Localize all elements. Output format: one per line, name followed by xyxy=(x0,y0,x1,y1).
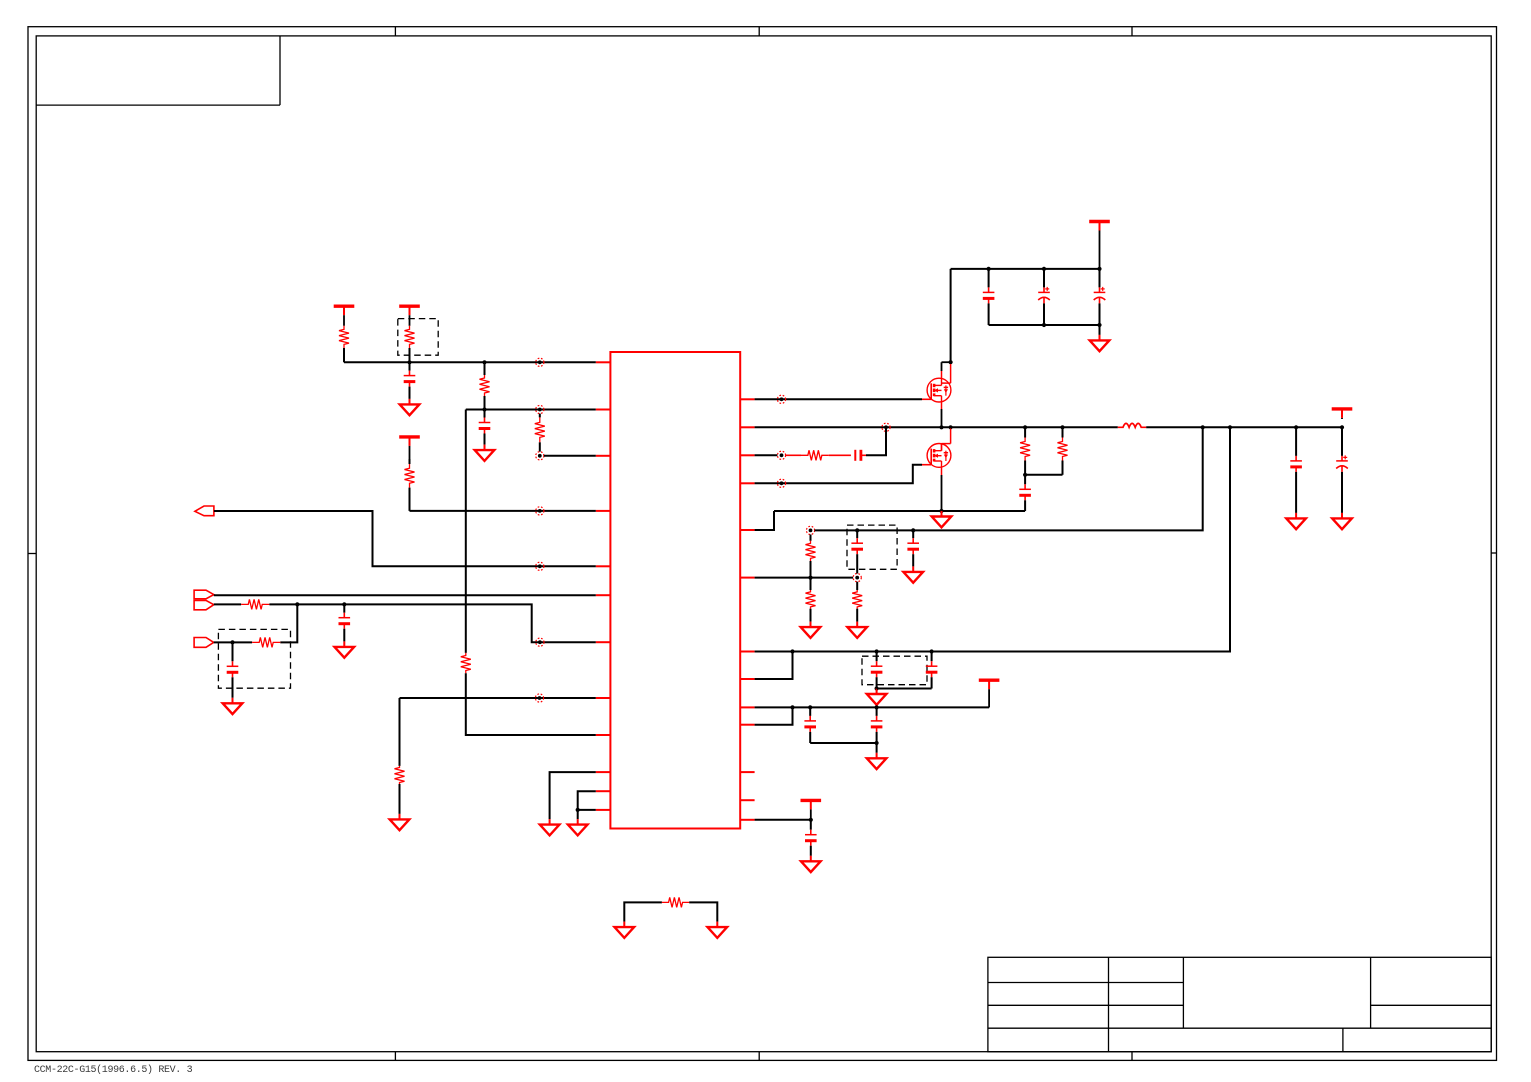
junction xyxy=(342,602,346,606)
power symbol VCC7 xyxy=(1332,409,1353,419)
junction xyxy=(809,818,813,822)
junction xyxy=(482,407,486,411)
wire to pin4 xyxy=(410,510,596,512)
junction xyxy=(1060,425,1064,429)
resistor R6 xyxy=(405,459,415,511)
junction xyxy=(875,705,879,709)
document number text xyxy=(34,1064,193,1076)
Q2 drain hook xyxy=(942,428,951,450)
node tie pin4 xyxy=(536,507,544,515)
resistor R5 xyxy=(461,653,471,673)
capacitor C7 (polarized) xyxy=(1094,269,1106,325)
node tie pin8 xyxy=(535,694,543,702)
wire pin8 net xyxy=(400,697,596,699)
ground xyxy=(400,399,420,415)
junction xyxy=(949,360,953,364)
junction xyxy=(1023,473,1027,477)
wire feedback net xyxy=(815,427,1203,530)
wire P2 to pin6 xyxy=(214,594,596,596)
transistor Q2 xyxy=(927,444,951,468)
node tie pin7 xyxy=(536,638,544,646)
wire up to VCC6 xyxy=(810,810,812,820)
capacitor C4 xyxy=(339,604,351,641)
Q2 source lead xyxy=(941,467,943,511)
node tie fb xyxy=(806,526,814,534)
Q1 drain hook xyxy=(942,362,951,383)
wire P4 xyxy=(214,641,233,643)
wire pin13 to Q1 gate xyxy=(755,398,922,400)
node tie pin15 xyxy=(777,479,785,487)
optional box RC xyxy=(218,629,290,688)
svg-text:CCM-22C-G15(1996.6.5) REV. 3: CCM-22C-G15(1996.6.5) REV. 3 xyxy=(34,1064,193,1076)
capacitor C13 xyxy=(926,652,938,689)
wire pin17 net xyxy=(755,577,854,579)
ground xyxy=(390,814,410,830)
wire pin23 net xyxy=(755,819,811,821)
junction xyxy=(875,686,879,690)
power symbol VCC5 xyxy=(979,680,1000,707)
capacitor C14 xyxy=(804,707,816,743)
junction xyxy=(407,360,411,364)
wire net VREF top xyxy=(344,361,596,363)
junction xyxy=(1340,425,1344,429)
node tie pin2 xyxy=(536,405,544,413)
node tie pin5 xyxy=(536,562,544,570)
wire R11 to C8 xyxy=(829,454,851,456)
node tie pin13 xyxy=(777,395,785,403)
wire pin20/21 join xyxy=(755,707,793,724)
wire pin14 to tie xyxy=(755,454,778,456)
port arrow P3 (input) xyxy=(194,600,214,609)
ground xyxy=(475,445,495,461)
resistor R10 xyxy=(662,897,689,907)
power symbol VCC6 xyxy=(801,800,822,810)
ground xyxy=(540,819,560,835)
wire long vertical to pin9 xyxy=(465,410,467,653)
ground xyxy=(568,819,588,835)
junction xyxy=(1097,323,1101,327)
junction xyxy=(1097,267,1101,271)
ground xyxy=(1286,513,1306,529)
port arrow P1 (output left) xyxy=(195,506,214,516)
optional box C10 xyxy=(847,525,897,569)
IC U1 left pin stubs xyxy=(596,362,611,810)
transistor Q1 xyxy=(927,378,951,402)
ground xyxy=(932,511,952,527)
power symbol VCC3 xyxy=(399,437,420,459)
wire C14 bottom xyxy=(810,742,876,744)
ground xyxy=(801,622,821,638)
resistor R1 xyxy=(339,326,349,363)
junction xyxy=(930,649,934,653)
wire from P1 to pin5 xyxy=(214,511,596,566)
port arrow P2 (input) xyxy=(194,590,214,599)
junction xyxy=(1294,425,1298,429)
ground xyxy=(867,753,887,769)
wire pgnd rail xyxy=(774,510,1025,512)
IC U1 right pin stubs xyxy=(740,399,754,820)
power symbol VCC4 xyxy=(1089,222,1110,269)
IC U1 body xyxy=(610,352,740,829)
ground xyxy=(1090,335,1110,351)
wire pin10 to ground xyxy=(550,772,596,819)
junction xyxy=(855,528,859,532)
ground xyxy=(801,856,821,872)
wire to ground xyxy=(1099,325,1101,335)
resistor R12 xyxy=(1020,427,1030,475)
resistor R14 xyxy=(806,535,816,578)
junction xyxy=(576,808,580,812)
wire pin12 xyxy=(578,809,596,811)
node tie fb2 xyxy=(853,574,861,582)
junction xyxy=(808,705,812,709)
junction xyxy=(911,528,915,532)
wire pin16 xyxy=(755,511,774,530)
capacitor C18 (polarized) xyxy=(1336,427,1348,513)
wire pin11/12 to ground xyxy=(578,791,596,819)
ground xyxy=(708,922,728,938)
wire pin18/19 join xyxy=(755,652,793,680)
junction xyxy=(939,509,943,513)
capacitor C1 xyxy=(404,362,416,399)
wire net P3 xyxy=(269,604,595,642)
port arrow P4 (input) xyxy=(194,638,214,648)
capacitor C8 (series) xyxy=(855,450,866,461)
node tie pin3 xyxy=(536,452,544,460)
wire pin15 to Q2 gate xyxy=(755,465,922,484)
wire divider link xyxy=(1025,474,1062,476)
junction xyxy=(808,576,812,580)
capacitor C15 xyxy=(871,707,883,743)
Q2 gate lead xyxy=(922,464,931,466)
ground xyxy=(223,698,243,714)
wire vcc rail xyxy=(951,268,1100,270)
junction xyxy=(949,425,953,429)
power symbol VCC1 xyxy=(334,306,355,326)
wire cap bank bottom rail xyxy=(989,324,1100,326)
ground xyxy=(615,922,635,938)
ground xyxy=(1332,513,1352,529)
capacitor C16 xyxy=(805,820,817,856)
junction xyxy=(987,267,991,271)
junction xyxy=(1023,425,1027,429)
resistor R2 xyxy=(405,326,415,363)
wire pin3 stub xyxy=(544,455,596,457)
wire boot net xyxy=(755,427,1230,651)
ground xyxy=(903,566,923,582)
power symbol VCC2 xyxy=(399,306,420,326)
wire vdd net xyxy=(755,706,990,708)
wire C13 bottom xyxy=(877,688,932,690)
wire pin14 to R11 xyxy=(786,454,801,456)
ground xyxy=(847,622,867,638)
resistor R4 xyxy=(535,414,545,452)
capacitor C10 xyxy=(851,530,863,573)
wire vertical to pin9 corner xyxy=(466,673,596,735)
node tie pin1 xyxy=(536,358,544,366)
wire net row2 xyxy=(466,409,596,411)
capacitor C9 xyxy=(1019,475,1031,511)
inductor L1 xyxy=(1118,423,1146,427)
wire switch-node rail xyxy=(755,426,1118,428)
wire rail after inductor xyxy=(1146,426,1342,428)
optional box C12 xyxy=(862,656,927,685)
junction xyxy=(939,425,943,429)
junction xyxy=(1228,425,1232,429)
resistor R13 xyxy=(1058,427,1068,475)
resistor R7 xyxy=(214,599,270,609)
junction xyxy=(875,649,879,653)
Q1 source lead xyxy=(941,402,943,427)
wire branch down xyxy=(280,604,297,642)
resistor R11 xyxy=(801,450,829,460)
junction xyxy=(790,705,794,709)
resistor R9 xyxy=(395,698,405,814)
ground xyxy=(335,641,355,657)
resistor R15 xyxy=(806,578,816,622)
capacitor C17 xyxy=(1290,427,1302,513)
junction xyxy=(875,741,879,745)
capacitor C11 xyxy=(907,530,919,566)
junction xyxy=(1042,267,1046,271)
ground xyxy=(867,689,887,705)
wire C8 up to rail xyxy=(866,427,886,455)
junction xyxy=(790,649,794,653)
notes box top-left xyxy=(36,36,280,105)
capacitor C5 xyxy=(983,269,995,325)
capacitor C12 xyxy=(871,652,883,689)
title block xyxy=(988,957,1491,1051)
optional box R2 xyxy=(398,319,438,356)
node tie switch xyxy=(882,423,890,431)
junction xyxy=(230,640,234,644)
resistor R3 xyxy=(480,362,490,409)
node tie pin14 xyxy=(777,451,785,459)
Q1 gate lead xyxy=(922,398,931,400)
capacitor C2 xyxy=(479,410,491,445)
wire bridge left xyxy=(624,902,662,921)
wire bridge right xyxy=(689,902,717,921)
wire C15 to gnd xyxy=(876,743,878,753)
junction xyxy=(482,360,486,364)
capacitor C6 (polarized) xyxy=(1038,269,1050,325)
wire vcc drop to Q1 xyxy=(950,269,952,362)
junction xyxy=(295,602,299,606)
capacitor C3 xyxy=(227,642,239,697)
resistor R8 xyxy=(233,637,281,647)
resistor R16 xyxy=(852,582,862,622)
junction xyxy=(1042,323,1046,327)
junction xyxy=(1201,425,1205,429)
